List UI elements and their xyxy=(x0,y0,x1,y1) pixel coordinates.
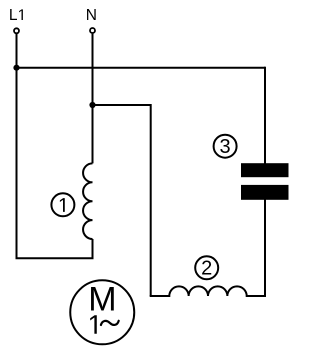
label circle 2 xyxy=(195,256,218,279)
terminal N xyxy=(90,28,95,33)
motor label tilde xyxy=(101,321,119,325)
svg-text:N: N xyxy=(86,7,97,24)
wire auxiliary branch vertical xyxy=(150,104,152,296)
wire from L1 terminal down left side xyxy=(16,34,18,258)
wire from winding 1 bottom xyxy=(92,239,94,258)
svg-text:2: 2 xyxy=(201,258,212,280)
wire right vertical from top corner down to capacitor xyxy=(264,67,266,170)
motor label 1 xyxy=(90,315,97,334)
inductor 1 (main winding) xyxy=(83,163,92,239)
svg-text:3: 3 xyxy=(220,136,231,158)
wire top horizontal from L1 junction to right side xyxy=(16,67,266,69)
capacitor plate bottom xyxy=(241,185,289,200)
junction dot on L1 wire xyxy=(13,65,19,71)
wire from N terminal down to winding 1 xyxy=(92,34,94,164)
svg-text:M: M xyxy=(88,280,116,318)
motor M1~ circle xyxy=(70,280,134,344)
label circle 1 xyxy=(51,193,74,216)
label circle 3 xyxy=(214,135,237,158)
label L1 xyxy=(9,7,23,24)
inductor 2 (auxiliary winding) xyxy=(150,286,266,296)
wire bottom horizontal to L1 branch xyxy=(16,257,94,259)
terminal L1 xyxy=(14,28,19,33)
wire from N junction to auxiliary branch xyxy=(93,104,151,106)
capacitor plate top xyxy=(241,163,289,177)
svg-text:L: L xyxy=(9,7,18,24)
junction dot on N wire xyxy=(89,102,95,108)
wire right vertical from capacitor down to coil 2 xyxy=(264,195,266,296)
